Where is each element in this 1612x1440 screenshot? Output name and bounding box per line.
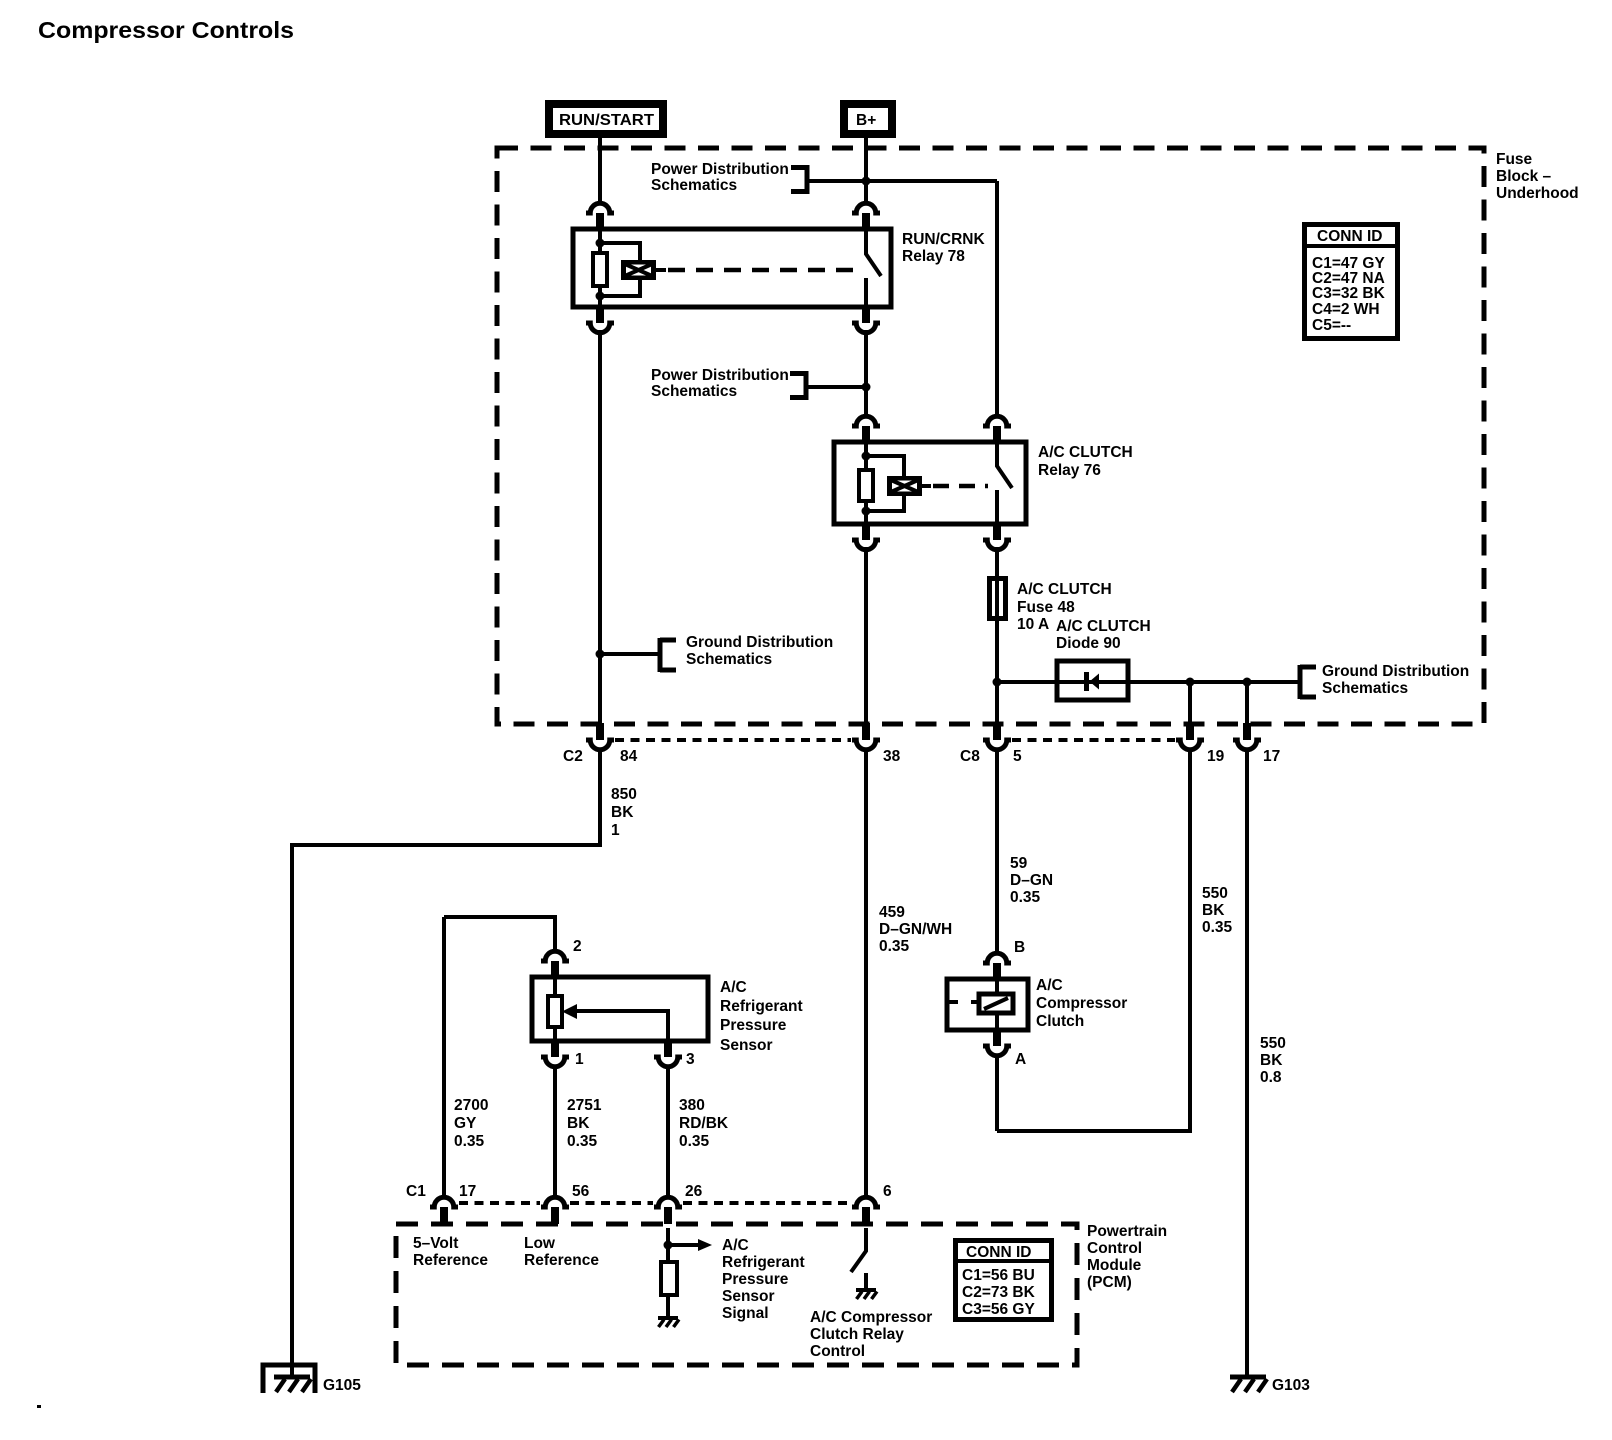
svg-text:RD/BK: RD/BK <box>679 1115 729 1132</box>
svg-text:6: 6 <box>883 1183 892 1200</box>
svg-text:0.35: 0.35 <box>1010 889 1041 906</box>
svg-text:A/C: A/C <box>720 979 747 996</box>
svg-text:C1: C1 <box>406 1183 426 1200</box>
svg-text:Powertrain: Powertrain <box>1087 1223 1167 1240</box>
svg-text:0.35: 0.35 <box>1202 919 1233 936</box>
svg-text:D–GN/WH: D–GN/WH <box>879 921 952 938</box>
svg-text:Reference: Reference <box>413 1252 488 1269</box>
svg-text:2: 2 <box>573 938 582 955</box>
svg-text:17: 17 <box>1263 748 1280 765</box>
svg-text:Reference: Reference <box>524 1252 599 1269</box>
svg-text:5–Volt: 5–Volt <box>413 1235 458 1252</box>
svg-text:Module: Module <box>1087 1257 1142 1274</box>
svg-text:Schematics: Schematics <box>1322 680 1408 697</box>
svg-text:BK: BK <box>611 804 634 821</box>
svg-text:A/C: A/C <box>1036 977 1063 994</box>
svg-text:(PCM): (PCM) <box>1087 1274 1132 1291</box>
svg-text:CONN ID: CONN ID <box>1317 228 1382 245</box>
svg-text:C4=2 WH: C4=2 WH <box>1312 301 1380 318</box>
svg-text:850: 850 <box>611 786 637 803</box>
svg-text:0.35: 0.35 <box>879 938 910 955</box>
svg-text:Clutch: Clutch <box>1036 1013 1084 1030</box>
svg-text:G105: G105 <box>323 1377 361 1394</box>
svg-text:17: 17 <box>459 1183 476 1200</box>
svg-text:1: 1 <box>575 1051 584 1068</box>
svg-text:Schematics: Schematics <box>651 383 737 400</box>
svg-text:0.35: 0.35 <box>567 1133 598 1150</box>
svg-text:10 A: 10 A <box>1017 616 1049 633</box>
svg-text:Schematics: Schematics <box>651 177 737 194</box>
svg-text:3: 3 <box>686 1051 695 1068</box>
svg-text:Refrigerant: Refrigerant <box>720 998 803 1015</box>
svg-text:A/C: A/C <box>722 1237 749 1254</box>
svg-text:A/C Compressor: A/C Compressor <box>810 1309 932 1326</box>
svg-text:Diode 90: Diode 90 <box>1056 635 1121 652</box>
svg-text:1: 1 <box>611 822 620 839</box>
svg-text:B: B <box>1014 939 1025 956</box>
svg-text:C3=32 BK: C3=32 BK <box>1312 285 1386 302</box>
svg-text:D–GN: D–GN <box>1010 872 1053 889</box>
svg-text:Refrigerant: Refrigerant <box>722 1254 805 1271</box>
svg-text:550: 550 <box>1260 1035 1286 1052</box>
svg-text:0.8: 0.8 <box>1260 1069 1282 1086</box>
svg-text:26: 26 <box>685 1183 703 1200</box>
svg-text:0.35: 0.35 <box>454 1133 485 1150</box>
svg-text:Power Distribution: Power Distribution <box>651 367 789 384</box>
svg-text:Pressure: Pressure <box>720 1017 787 1034</box>
svg-text:A/C CLUTCH: A/C CLUTCH <box>1038 444 1133 461</box>
svg-text:C3=56 GY: C3=56 GY <box>962 1301 1035 1318</box>
svg-text:Control: Control <box>810 1343 865 1360</box>
svg-text:A/C CLUTCH: A/C CLUTCH <box>1017 581 1112 598</box>
svg-text:Ground Distribution: Ground Distribution <box>686 634 833 651</box>
svg-text:459: 459 <box>879 904 905 921</box>
svg-text:C1=56 BU: C1=56 BU <box>962 1267 1035 1284</box>
svg-text:Sensor: Sensor <box>720 1037 773 1054</box>
svg-text:C5=--: C5=-- <box>1312 317 1351 334</box>
svg-text:C8: C8 <box>960 748 980 765</box>
svg-text:Low: Low <box>524 1235 556 1252</box>
svg-text:RUN/CRNK: RUN/CRNK <box>902 231 985 248</box>
svg-text:56: 56 <box>572 1183 590 1200</box>
svg-text:A: A <box>1015 1051 1026 1068</box>
svg-text:BK: BK <box>1202 902 1225 919</box>
svg-text:CONN ID: CONN ID <box>966 1244 1031 1261</box>
svg-text:380: 380 <box>679 1097 705 1114</box>
svg-text:5: 5 <box>1013 748 1022 765</box>
svg-text:B+: B+ <box>856 112 876 129</box>
svg-text:Pressure: Pressure <box>722 1271 789 1288</box>
svg-text:C2=73 BK: C2=73 BK <box>962 1284 1036 1301</box>
svg-text:Schematics: Schematics <box>686 651 772 668</box>
svg-text:Sensor: Sensor <box>722 1288 775 1305</box>
svg-text:Ground Distribution: Ground Distribution <box>1322 663 1469 680</box>
svg-text:Clutch Relay: Clutch Relay <box>810 1326 904 1343</box>
svg-text:Compressor: Compressor <box>1036 995 1127 1012</box>
svg-text:Underhood: Underhood <box>1496 185 1579 202</box>
svg-text:A/C CLUTCH: A/C CLUTCH <box>1056 618 1151 635</box>
svg-text:Relay 76: Relay 76 <box>1038 462 1101 479</box>
svg-text:BK: BK <box>1260 1052 1283 1069</box>
svg-text:550: 550 <box>1202 885 1228 902</box>
svg-text:Fuse: Fuse <box>1496 151 1533 168</box>
svg-text:Fuse 48: Fuse 48 <box>1017 599 1075 616</box>
svg-text:59: 59 <box>1010 855 1028 872</box>
svg-text:19: 19 <box>1207 748 1225 765</box>
svg-text:C2: C2 <box>563 748 583 765</box>
svg-text:RUN/START: RUN/START <box>559 112 655 129</box>
svg-text:0.35: 0.35 <box>679 1133 710 1150</box>
svg-text:G103: G103 <box>1272 1377 1310 1394</box>
svg-text:Relay 78: Relay 78 <box>902 248 965 265</box>
svg-text:GY: GY <box>454 1115 477 1132</box>
svg-text:Control: Control <box>1087 1240 1142 1257</box>
svg-text:BK: BK <box>567 1115 590 1132</box>
svg-text:38: 38 <box>883 748 901 765</box>
svg-text:84: 84 <box>620 748 638 765</box>
svg-text:Block –: Block – <box>1496 168 1552 185</box>
svg-text:Compressor Controls: Compressor Controls <box>38 17 294 43</box>
svg-text:2751: 2751 <box>567 1097 602 1114</box>
svg-text:2700: 2700 <box>454 1097 488 1114</box>
svg-text:Power Distribution: Power Distribution <box>651 161 789 178</box>
svg-text:Signal: Signal <box>722 1305 769 1322</box>
